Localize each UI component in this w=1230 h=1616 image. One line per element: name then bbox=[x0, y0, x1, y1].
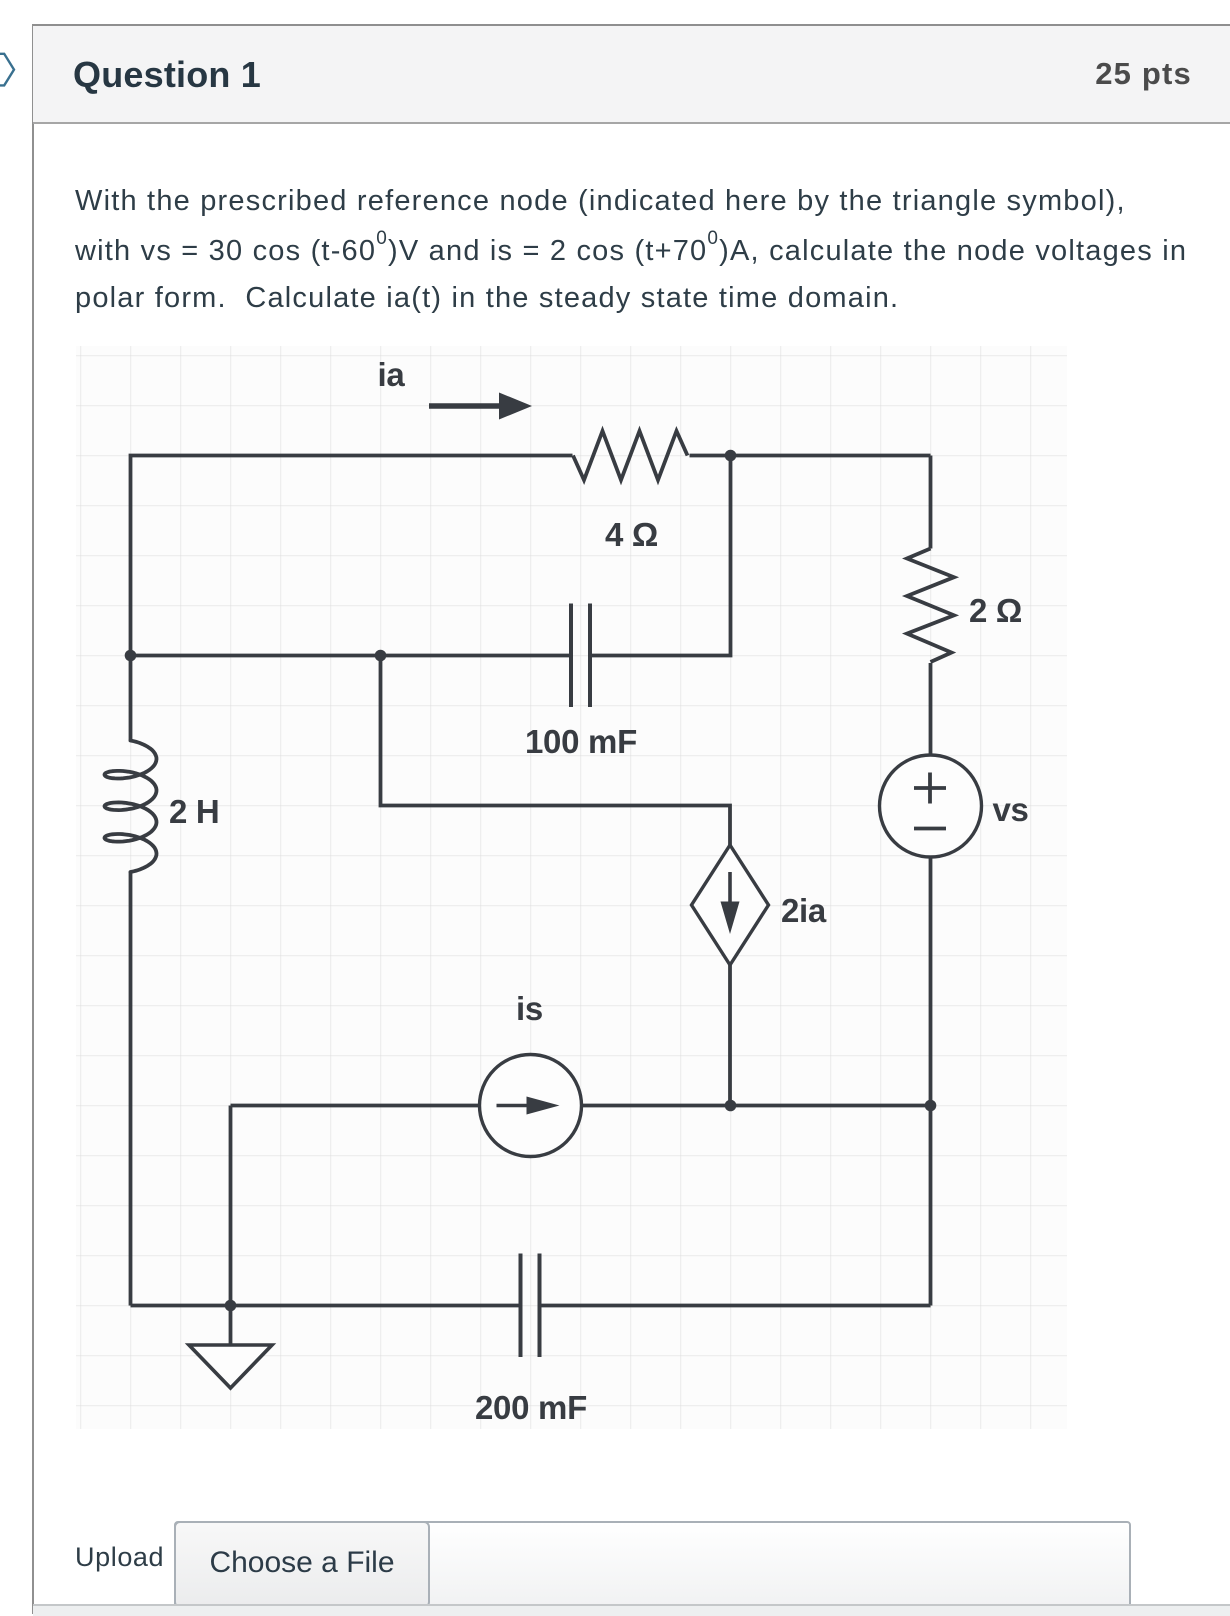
wire top rail left of 4ohm resistor bbox=[131, 456, 573, 656]
is arrow head bbox=[527, 1097, 560, 1115]
wire left rail top of inductor bbox=[129, 656, 133, 741]
capacitor 100 mF plates bbox=[571, 604, 590, 708]
wire 2ohm to vs source bbox=[929, 663, 933, 755]
2ia diamond arrow shaft bbox=[728, 872, 732, 911]
node dot mid cap rail bbox=[375, 650, 387, 662]
is source arrow shaft bbox=[497, 1104, 534, 1108]
svg-text:4 Ω: 4 Ω bbox=[605, 516, 658, 553]
2ia arrow head bbox=[721, 902, 740, 935]
wire diamond to is rail bbox=[728, 965, 732, 1106]
svg-text:ia: ia bbox=[378, 356, 406, 393]
svg-text:2 Ω: 2 Ω bbox=[969, 592, 1022, 629]
wire left rail bottom bbox=[129, 872, 133, 1306]
voltage source vs circle bbox=[880, 755, 982, 857]
circuit schematic bbox=[76, 346, 1067, 1429]
resistor 2 ohm bbox=[907, 549, 954, 663]
wire bottom rail right segment bbox=[542, 1304, 931, 1308]
wire capacitor rail left bbox=[131, 654, 570, 658]
header pts bbox=[1095, 58, 1192, 89]
question paragraph bbox=[75, 187, 1126, 216]
wire is rail left drop to bottom rail bbox=[229, 1106, 233, 1306]
resistor 4 ohm bbox=[573, 431, 688, 480]
dependent current source 2ia diamond bbox=[692, 845, 769, 965]
wire is rail right bbox=[582, 1104, 931, 1108]
ground stub bbox=[229, 1306, 233, 1344]
capacitor 200 mF plates bbox=[521, 1254, 540, 1358]
wire mid link from node to diamond bbox=[381, 656, 731, 846]
question header bar bbox=[33, 24, 1230, 124]
ground triangle bbox=[189, 1345, 272, 1388]
ia current arrow shaft bbox=[429, 403, 501, 409]
svg-text:100 mF: 100 mF bbox=[525, 723, 637, 760]
header title bbox=[73, 57, 261, 93]
inductor 2H coil bbox=[105, 741, 157, 873]
ia arrow head bbox=[499, 393, 532, 420]
card left border bbox=[32, 24, 34, 1614]
svg-text:is: is bbox=[516, 990, 543, 1027]
wire bottom rail left segment bbox=[131, 1304, 519, 1308]
vs plus sign bbox=[914, 773, 946, 804]
svg-text:vs: vs bbox=[993, 791, 1029, 828]
upload label bbox=[75, 1544, 164, 1571]
choose a file button bbox=[174, 1521, 430, 1608]
wire right branch top bbox=[929, 456, 933, 549]
grid background bbox=[76, 346, 1067, 1429]
bottom gray strip bbox=[33, 1604, 1230, 1616]
wire vs source down to bottom right corner bbox=[929, 857, 933, 1306]
current source is circle bbox=[480, 1055, 582, 1157]
file input box bbox=[174, 1521, 1131, 1608]
left flag hexagon icon (cut off at page edge) bbox=[0, 41, 20, 101]
node dot is rail at diamond bbox=[725, 1100, 737, 1112]
vs minus sign bbox=[914, 827, 946, 831]
node dot ground bbox=[225, 1300, 237, 1312]
svg-text:2 H: 2 H bbox=[169, 793, 219, 830]
node dot top rail bbox=[725, 450, 737, 462]
wire capacitor rail right and up to top node bbox=[592, 456, 731, 656]
svg-text:2ia: 2ia bbox=[781, 892, 827, 929]
node dot left cap rail bbox=[125, 650, 137, 662]
svg-text:200 mF: 200 mF bbox=[475, 1389, 587, 1426]
wire top rail right of 4ohm resistor bbox=[690, 454, 931, 458]
wire is rail left bbox=[231, 1104, 480, 1108]
node dot is rail right bbox=[925, 1100, 937, 1112]
